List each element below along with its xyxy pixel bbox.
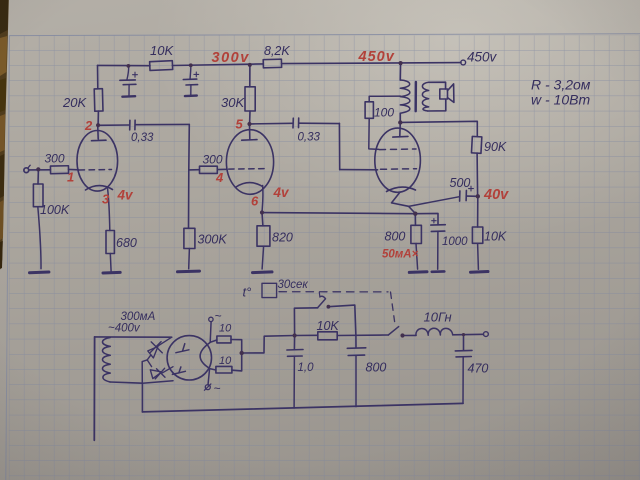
- tube V1 envelope: [77, 131, 118, 192]
- svg-text:10K: 10K: [317, 319, 340, 333]
- tube V2 grid (dashed): [229, 168, 266, 171]
- transformer T2 core: [415, 82, 418, 111]
- svg-text:90K: 90K: [484, 140, 507, 154]
- switch S1 arm: [318, 296, 326, 308]
- capacitor C-rail-1 (electrolytic to ground): [120, 66, 137, 97]
- node: 40v: [476, 194, 480, 198]
- wire: center tap jog to node A: [242, 336, 295, 354]
- svg-text:0,33: 0,33: [131, 132, 154, 144]
- wire: diode junction to bottom: [142, 360, 147, 383]
- wire: 500 to 40v node: [467, 195, 478, 197]
- wire: switch node to choke: [403, 334, 417, 336]
- ground (820): [253, 270, 273, 274]
- wire: rail corner down to 20K: [97, 65, 99, 88]
- svg-text:30сек: 30сек: [278, 279, 309, 291]
- wire: grid row to 300 resistor (stage2): [189, 169, 200, 171]
- wire: V3 cathode node down to 800: [414, 214, 416, 226]
- rectifier tube V4 filament arc: [200, 343, 210, 369]
- resistor 10K (rail): [150, 61, 173, 71]
- ground (10K): [471, 270, 489, 274]
- svg-text:~: ~: [215, 309, 222, 323]
- resistor 300K: [184, 228, 195, 248]
- node: A (after rectifier): [293, 333, 297, 337]
- svg-text:5: 5: [236, 117, 244, 132]
- wire: node A up to bypass: [294, 308, 317, 336]
- transformer T1 mains lead: [93, 337, 95, 440]
- tube V2 anode: [242, 124, 257, 140]
- wire: V2 anode node to C2: [252, 122, 293, 125]
- wire: S1 to corner: [328, 305, 356, 348]
- svg-text:300: 300: [203, 153, 223, 167]
- svg-text:4: 4: [215, 170, 224, 185]
- wire: top supply rail right segment: [282, 63, 462, 64]
- wire: C 1,0 to bottom rail: [293, 356, 295, 408]
- svg-text:0,33: 0,33: [298, 132, 321, 144]
- resistor 100K: [33, 184, 43, 207]
- wire: C800 to bottom rail: [355, 356, 357, 407]
- relay box t-30sec: [262, 283, 277, 297]
- wire: filament bottom to resistor 10: [210, 369, 216, 370]
- capacitor 500 (plates): [460, 190, 467, 201]
- input terminal: [24, 165, 30, 172]
- wire: 90K down to 40v node: [476, 153, 479, 196]
- tube V2 cathode: [236, 183, 263, 187]
- node: rail at 30K: [248, 63, 252, 67]
- wire: anode node to 90K corner: [400, 121, 477, 136]
- wire: primary bottom to anode node: [399, 113, 401, 122]
- wire: secondary top to speaker: [429, 82, 446, 89]
- svg-text:w - 10Вт: w - 10Вт: [531, 92, 590, 108]
- wire: top supply rail middle segment: [172, 64, 263, 66]
- node: input grid: [36, 167, 40, 171]
- svg-text:40v: 40v: [483, 187, 509, 203]
- diode VD1: [147, 337, 172, 360]
- svg-text:20K: 20K: [62, 95, 87, 110]
- grid top border line: [9, 34, 640, 36]
- wire: 300 to V1 grid: [69, 168, 79, 170]
- resistor 8,2K: [263, 59, 281, 68]
- wire: 10K to switch contact: [337, 334, 388, 337]
- resistor 10K (40v divider): [472, 227, 482, 243]
- svg-text:4v: 4v: [273, 185, 291, 200]
- resistor 90K: [471, 136, 481, 153]
- transformer T2 primary winding: [400, 80, 410, 113]
- wire: 100K down to ground: [38, 207, 41, 269]
- switch S2 arm: [388, 327, 398, 335]
- tube V3 envelope: [375, 128, 421, 192]
- svg-text:10K: 10K: [150, 43, 174, 58]
- capacitor 470 (plates): [455, 350, 472, 357]
- svg-text:500: 500: [450, 176, 471, 190]
- wire: top supply rail left segment: [98, 64, 151, 66]
- wire: node A to 10K (main line): [295, 334, 318, 336]
- svg-text:3: 3: [102, 192, 110, 207]
- node: S2 contact: [400, 333, 404, 337]
- transformer T1 secondary winding: [102, 338, 110, 383]
- wire: C470 to bottom rail: [462, 357, 464, 404]
- dashed link to S1: [318, 292, 321, 297]
- wire: corner down to bottom rail: [141, 383, 143, 412]
- tube V1 grid (dashed): [79, 169, 112, 172]
- resistor 300 (V1 grid stopper): [50, 166, 68, 174]
- wire: V1 anode node to C1: [98, 124, 129, 126]
- transformer T2 secondary winding: [422, 82, 428, 111]
- tube V2 envelope: [226, 130, 273, 195]
- ground (1000): [432, 270, 445, 273]
- svg-text:450v: 450v: [467, 50, 498, 65]
- speaker: [440, 84, 454, 103]
- wire: bottom wire to rectifier bulb: [142, 381, 173, 384]
- svg-text:8,2K: 8,2K: [264, 44, 290, 58]
- wire: secondary bottom to speaker: [428, 99, 446, 111]
- svg-text:1: 1: [67, 170, 74, 185]
- capacitor 1000 plus sign: [432, 219, 436, 223]
- wire: rail junction down to output transformer: [399, 63, 401, 80]
- resistor 300 (V2 grid): [200, 166, 218, 173]
- svg-text:450v: 450v: [358, 49, 395, 65]
- wire: junction down to 820: [261, 213, 264, 226]
- filament terminal bottom: [204, 369, 211, 391]
- wire: C1 to corner: [136, 123, 190, 125]
- svg-text:470: 470: [468, 362, 489, 376]
- capacitor 1,0 (plates): [287, 350, 303, 357]
- svg-text:50мА×: 50мА×: [382, 249, 419, 261]
- svg-text:1000: 1000: [442, 236, 468, 248]
- tube V3 anode: [393, 122, 408, 137]
- node: V2 cathode: [260, 210, 264, 214]
- node: S1 contact: [327, 305, 331, 309]
- wire: 30K to V2 anode node: [249, 111, 251, 124]
- node: rail at C1: [126, 64, 130, 68]
- wire: rail down to 30K: [249, 65, 251, 87]
- wire: corner down to output grid row: [338, 123, 340, 169]
- wire: choke output down to C470: [463, 335, 465, 351]
- wire: 680 to ground: [109, 254, 112, 272]
- tube V3 screen grid (dashed): [380, 148, 417, 151]
- resistor 100: [365, 102, 373, 119]
- wire: T1 top to rectifier: [95, 336, 172, 338]
- svg-text:30K: 30K: [221, 95, 245, 110]
- tube V3 cathode: [387, 187, 416, 191]
- capacitor 0,33 (stage1-stage2): [130, 120, 135, 130]
- svg-text:820: 820: [272, 231, 293, 245]
- svg-text:~400v: ~400v: [108, 323, 141, 335]
- wire: choke to output terminal: [453, 333, 484, 336]
- svg-text:10Гн: 10Гн: [424, 310, 452, 325]
- wire: 820 to ground: [262, 246, 264, 269]
- svg-text:6: 6: [251, 194, 259, 209]
- resistor 30K: [245, 87, 255, 111]
- dashed linkage corner down: [391, 292, 395, 322]
- wire: V2 cathode to junction: [262, 186, 263, 213]
- wire: C2 right to corner: [299, 122, 339, 124]
- rectifier V4 anode 2: [172, 367, 185, 375]
- svg-text:~: ~: [214, 382, 221, 396]
- node: rail at C2: [189, 63, 193, 67]
- wire: cathode to 500 (feedback tap): [409, 197, 460, 207]
- wire: 300K to ground: [188, 249, 191, 269]
- wire: input to grid junction: [29, 169, 51, 171]
- svg-text:100: 100: [374, 106, 394, 120]
- tube V1 anode: [92, 125, 107, 141]
- capacitor 500 plus sign: [469, 186, 474, 191]
- ground (300K): [178, 270, 200, 274]
- rectifier V4 anode 1: [176, 344, 189, 353]
- node: V1 anode: [96, 123, 100, 127]
- ground (800): [409, 270, 427, 274]
- grid left border line: [6, 36, 10, 480]
- wire: T1 bottom to corner: [110, 382, 142, 383]
- svg-text:300: 300: [45, 152, 65, 166]
- wire: filament top to resistor 10: [210, 340, 217, 342]
- node: V2 anode: [247, 122, 251, 126]
- wire: cathode feedback line V2 to V3: [262, 213, 415, 214]
- svg-text:10: 10: [219, 355, 232, 367]
- resistor 20K: [94, 89, 103, 112]
- svg-text:4v: 4v: [117, 188, 135, 203]
- filament terminal top: [209, 317, 213, 342]
- wire: 300 to V2 grid: [217, 168, 227, 170]
- wire: input node down to 100K: [37, 170, 39, 184]
- svg-text:10: 10: [219, 323, 232, 335]
- svg-text:800: 800: [385, 230, 406, 244]
- capacitor C-rail-2 (electrolytic to ground): [183, 65, 198, 96]
- wire: bottom return rail: [142, 403, 463, 412]
- rectifier tube V4 envelope: [167, 336, 211, 380]
- wire: 40v node down to 10K: [477, 196, 479, 227]
- svg-text:300v: 300v: [212, 50, 250, 66]
- resistor 820: [257, 226, 270, 246]
- wire: resistors 10 common vertical: [231, 340, 242, 371]
- svg-text:300мА: 300мА: [121, 311, 156, 323]
- svg-text:800: 800: [366, 361, 387, 375]
- resistor 800: [411, 225, 422, 243]
- choke 10Гн: [416, 328, 453, 335]
- wire: 20K to V1 anode node: [97, 111, 99, 125]
- svg-text:2: 2: [84, 118, 93, 133]
- wire: to V3 grid: [340, 169, 378, 171]
- node: V3 cathode: [413, 212, 417, 216]
- capacitor 1000 (plates): [431, 225, 446, 232]
- resistor 680: [106, 231, 114, 254]
- svg-text:10K: 10K: [484, 230, 507, 244]
- wire: corner down to 300K top: [188, 124, 191, 228]
- wire: V1 cathode to 680: [108, 189, 110, 231]
- wire: node A down to C 1,0: [293, 336, 295, 350]
- svg-text:1,0: 1,0: [298, 362, 315, 374]
- svg-text:t°: t°: [243, 285, 252, 300]
- ground (100K): [30, 271, 49, 275]
- wire: 800 to ground: [416, 244, 418, 270]
- table edge (brown): [0, 0, 9, 270]
- ground (680): [103, 271, 120, 275]
- resistor 10 (lower): [216, 366, 232, 373]
- terminal 450v: [461, 60, 466, 65]
- resistor 10K (surge): [318, 332, 337, 340]
- node: rail at output transformer: [399, 61, 403, 65]
- capacitor 800 (plates): [347, 348, 366, 356]
- wire: 100 top tap: [369, 96, 400, 102]
- wire: 100 down to screen grid: [369, 118, 379, 149]
- svg-text:300K: 300K: [198, 233, 228, 247]
- svg-text:680: 680: [116, 236, 137, 250]
- tube V3 control grid (dashed): [381, 168, 417, 171]
- terminal (supply output): [484, 332, 489, 337]
- dashed linkage horizontal: [279, 291, 388, 293]
- node: V3 anode: [398, 120, 402, 124]
- resistor 10 (upper): [217, 336, 231, 343]
- tube V1 cathode: [86, 186, 113, 190]
- wire: 10K to ground: [477, 243, 480, 269]
- capacitor 0,33 (stage2-output): [293, 118, 299, 128]
- diode VD2: [147, 360, 173, 379]
- svg-text:R - 3,2ом: R - 3,2ом: [531, 77, 591, 93]
- node: filament center tap: [240, 351, 244, 355]
- wire: V3 cathode zigzag to junction: [392, 193, 415, 213]
- wire: cathode node right to 1000: [415, 213, 438, 224]
- svg-text:100K: 100K: [40, 203, 70, 217]
- node: choke output at C470: [462, 333, 465, 336]
- wire: 1000 to ground: [437, 231, 439, 269]
